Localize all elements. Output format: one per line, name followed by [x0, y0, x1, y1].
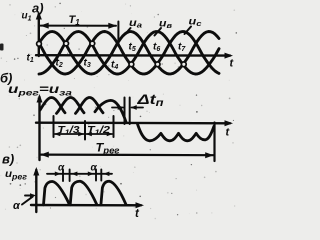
T1/2 arrowheads: [86, 132, 92, 137]
edge smudge left: [0, 44, 4, 51]
T1/3 arrowheads: [54, 132, 60, 137]
leader line for u_c: [185, 27, 192, 35]
alpha-controlled hump 3: [101, 181, 126, 205]
alpha gadget2 tick right: [100, 170, 102, 181]
T1 dimension line: [41, 25, 117, 27]
panel v vertical axis: [35, 170, 37, 212]
leader line for u_a: [124, 28, 131, 36]
T_reg arrowheads: [40, 152, 49, 158]
panel b horizontal t axis: [36, 121, 230, 124]
alpha gadget1 tick right: [69, 170, 71, 182]
pause marker line 2: [129, 98, 131, 125]
output hump 4 (final, runs into pause): [95, 100, 126, 122]
alpha bottom arrow line: [25, 195, 34, 197]
panel v axis arrowheads: [33, 167, 39, 176]
commutation node circles (positive group): [37, 41, 187, 67]
output hump 3: [76, 98, 104, 114]
output hump 1: [40, 98, 65, 113]
alpha-controlled hump 1: [44, 181, 70, 204]
commutation node circles (negative group): [129, 62, 134, 67]
panel v horizontal t axis: [31, 204, 141, 207]
T1/2 dimension line: [87, 133, 113, 135]
svg-text:Т1/3: Т1/3: [58, 124, 80, 137]
pause marker line 1: [124, 98, 126, 125]
svg-text:α: α: [58, 163, 65, 174]
leader line for u_b: [155, 28, 162, 36]
alpha leader bottom-left: [22, 197, 33, 205]
phase voltage curve u_a (sinusoid B): [39, 32, 219, 75]
svg-text:uа: uа: [129, 18, 142, 30]
panel a axis arrowheads: [36, 11, 42, 20]
panel a vertical axis u1: [38, 14, 40, 56]
alpha gadget2 arrowheads: [88, 172, 94, 177]
alpha gadget1 tick left: [62, 170, 64, 182]
negative group wave: [138, 124, 214, 141]
T1/3 / T1/2 middle tick: [84, 121, 86, 140]
svg-text:в): в): [2, 152, 14, 167]
T1 dimension arrowheads: [40, 23, 49, 29]
T1 right boundary tick: [117, 22, 119, 46]
alpha gadget1 arrowheads: [55, 172, 61, 177]
alpha gadget2 tick left: [95, 170, 97, 181]
alpha dimension line: [47, 173, 112, 175]
T1/2 right tick: [113, 116, 115, 137]
T1/3 tick left: [53, 116, 55, 137]
delta t_p arrowheads: [118, 105, 124, 110]
phase voltage curve u_b (sinusoid A): [39, 32, 219, 75]
panel a horizontal t axis: [36, 54, 230, 57]
delta t_p arrow lines: [112, 107, 123, 109]
alpha-controlled hump 2: [70, 181, 97, 205]
T_reg right tick: [213, 123, 215, 162]
output hump 2: [57, 98, 85, 114]
svg-text:uв: uв: [159, 19, 173, 31]
svg-text:uc: uc: [189, 17, 203, 29]
T1/3 dimension line: [55, 133, 84, 135]
panel b axis arrowheads: [37, 94, 43, 103]
svg-text:α: α: [13, 200, 21, 212]
svg-text:α: α: [91, 163, 98, 174]
svg-text:а): а): [32, 1, 44, 16]
phase voltage curve u_c (sinusoid C): [39, 32, 219, 75]
T_reg dimension line: [41, 154, 214, 157]
panel b vertical axis: [38, 97, 40, 160]
alpha bottom arrowhead: [30, 193, 36, 198]
